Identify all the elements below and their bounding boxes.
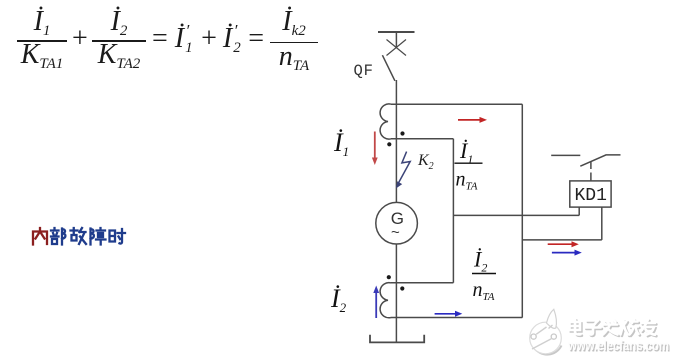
char 故 (dark blue) bbox=[71, 228, 87, 244]
wire: KD1 left lead bbox=[578, 207, 580, 215]
current arrow I1 (red, down) bbox=[372, 132, 378, 166]
ground: generator neutral bracket bbox=[370, 335, 424, 343]
current arrow bottom wire (blue, right) bbox=[435, 311, 463, 317]
wire: CT TA2 top terminal bbox=[391, 282, 453, 284]
wire: CT TA2 bottom terminal bbox=[391, 317, 522, 319]
watermark 电子发烧友 (drawn strokes) bbox=[570, 319, 657, 336]
contact KD1 left fixed lead bbox=[551, 154, 580, 156]
contact KD1 actuator link bbox=[590, 162, 592, 181]
current arrow I2 (blue, up) bbox=[373, 286, 379, 319]
fault K2 lightning arrow bbox=[396, 152, 410, 189]
char 内 (dark red) bbox=[33, 228, 47, 245]
label fraction I1/n_TA bbox=[455, 138, 483, 193]
char 时 (dark blue) bbox=[110, 229, 126, 244]
CT TA1 coil (top current transformer) bbox=[380, 104, 391, 139]
wire: CT TA1 bottom terminal to middle vertical bbox=[391, 138, 453, 140]
CT TA2 polarity dot (secondary) bbox=[400, 286, 404, 290]
svg-text:QF: QF bbox=[354, 62, 374, 80]
svg-text:İ2: İ2 bbox=[473, 247, 487, 275]
CT TA2 coil (bottom current transformer) bbox=[380, 283, 391, 318]
svg-text:~: ~ bbox=[391, 224, 400, 241]
svg-text:İ1: İ1 bbox=[459, 138, 473, 166]
text 内部故障时 (drawn strokes, no CJK font available) bbox=[33, 228, 125, 245]
bus bar bbox=[378, 31, 415, 33]
fraction I2/K_TA2 bbox=[92, 0, 146, 78]
svg-text:nTA: nTA bbox=[456, 169, 478, 193]
breaker QF stub bbox=[395, 32, 397, 48]
label fraction I2/n_TA bbox=[472, 247, 496, 304]
char 障 (dark blue) bbox=[91, 228, 106, 245]
watermark url text bbox=[568, 338, 669, 353]
fraction Ik2/n_TA bbox=[270, 0, 318, 78]
middle run = I1' + I2' = bbox=[152, 26, 264, 56]
current arrow at KD1 (blue, right) bbox=[552, 250, 582, 256]
wire: relay lower branch bbox=[522, 239, 602, 241]
fraction I1/K_TA1 bbox=[17, 0, 67, 78]
contact KD1 blade bbox=[580, 155, 620, 166]
svg-text:K2: K2 bbox=[417, 152, 434, 172]
current arrow top wire (red, right) bbox=[458, 117, 487, 123]
watermark logo circle bbox=[530, 309, 562, 354]
breaker QF blade bbox=[382, 55, 395, 81]
current arrow at KD1 (red, right) bbox=[548, 241, 579, 247]
plus sign bbox=[72, 26, 88, 52]
svg-text:KD1: KD1 bbox=[575, 186, 607, 206]
svg-text:nTA: nTA bbox=[473, 279, 495, 303]
relay KD1 box bbox=[570, 181, 611, 207]
wire: KD1 right lead bbox=[601, 207, 603, 240]
wire: main conductor lower bbox=[395, 244, 397, 343]
char 部 (dark blue) bbox=[51, 228, 65, 245]
svg-text:İ1: İ1 bbox=[333, 128, 349, 159]
svg-text:İ2: İ2 bbox=[330, 284, 347, 315]
CT TA1 polarity dot (primary) bbox=[387, 142, 391, 146]
breaker QF X symbol bbox=[387, 40, 407, 56]
wire: main conductor upper bbox=[395, 80, 397, 203]
CT TA1 polarity dot (secondary) bbox=[400, 131, 404, 135]
wire: relay upper branch bbox=[453, 214, 579, 216]
wire: right vertical (differential) bbox=[521, 104, 523, 317]
CT TA2 polarity dot (primary) bbox=[387, 275, 391, 279]
wire: CT TA1 top terminal to right vertical bbox=[391, 103, 522, 105]
wire: middle vertical bbox=[452, 139, 454, 283]
formula: I1/K_TA1 + I2/K_TA2 = I1' + I2' = Ik2/n_TA bbox=[0, 0, 340, 80]
generator G circle bbox=[376, 202, 418, 244]
